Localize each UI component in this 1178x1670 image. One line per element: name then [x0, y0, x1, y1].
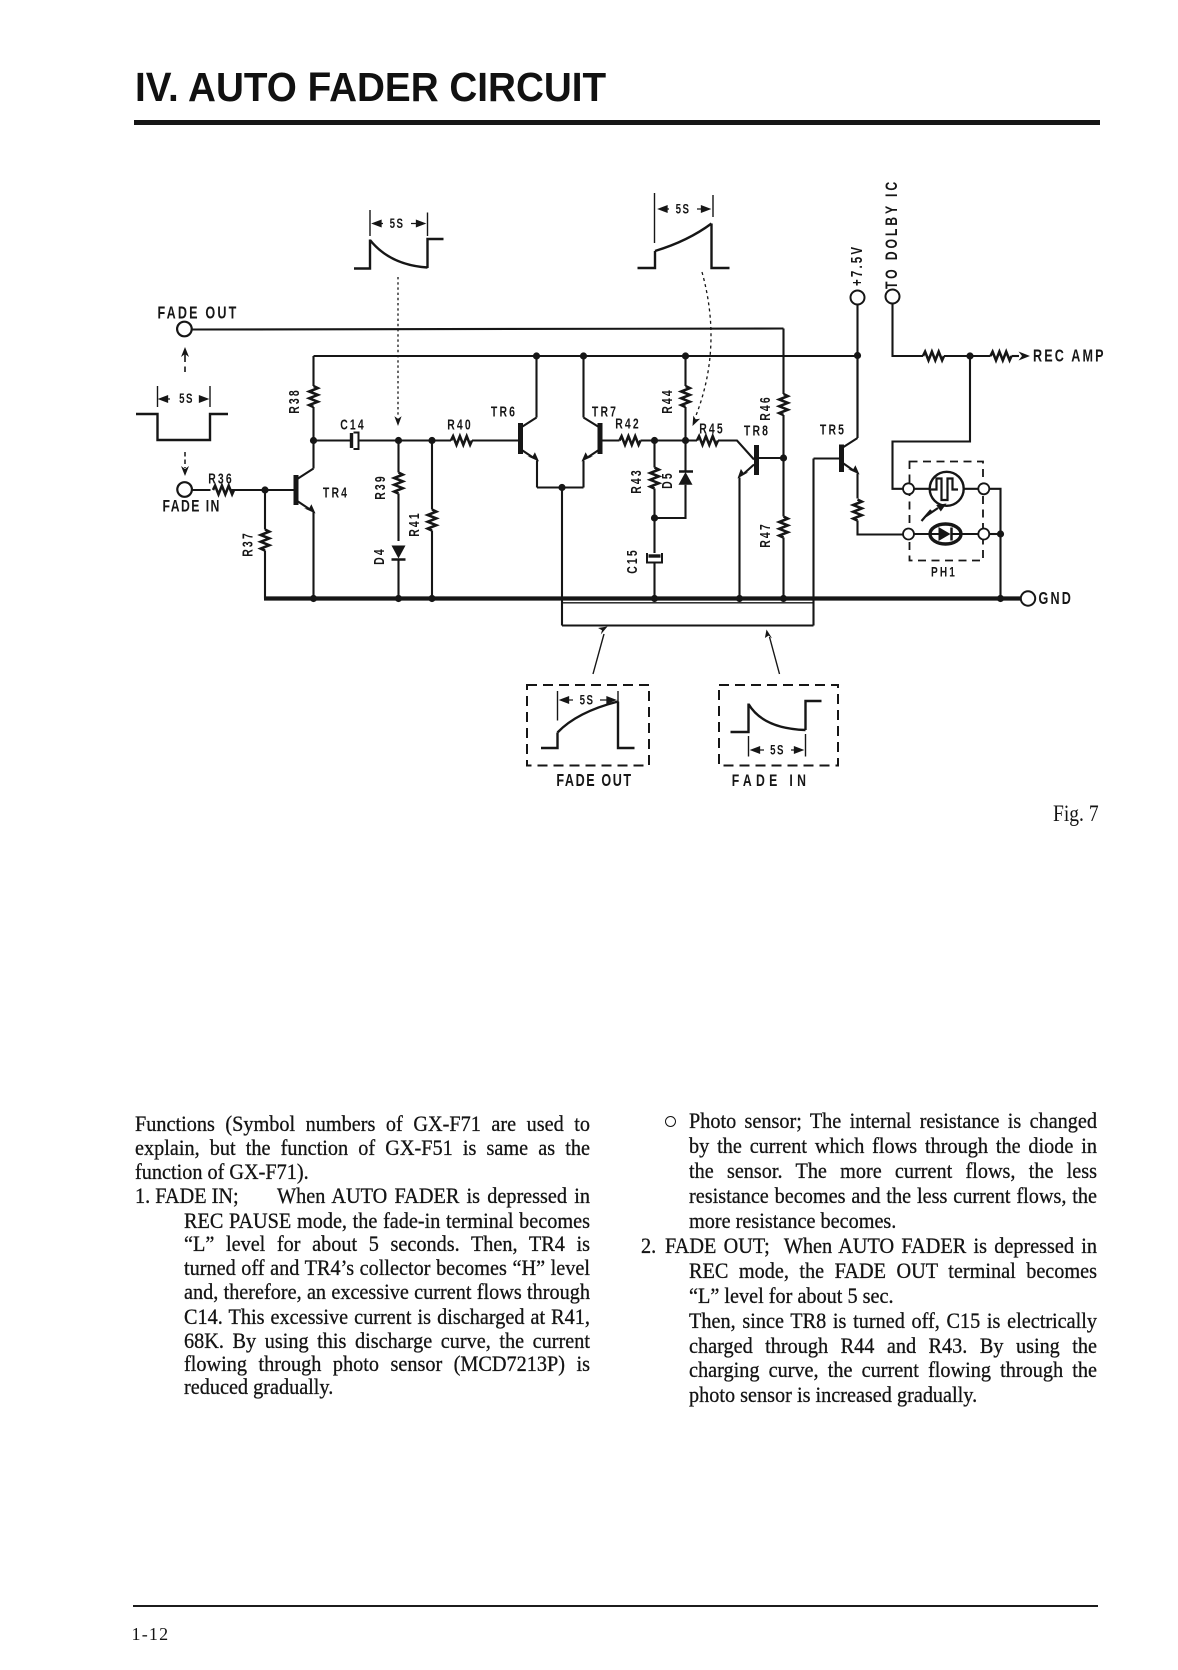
- capacitor C14: [352, 433, 359, 450]
- node: R41 on bus: [428, 595, 435, 602]
- node: TR8 emitter on bus: [736, 595, 743, 602]
- diode D4: [392, 546, 406, 599]
- light coupling arrow inside PH1: [922, 504, 947, 522]
- svg-text:D5: D5: [659, 471, 675, 489]
- terminal GND: [1021, 591, 1035, 605]
- terminal +7.5V: [851, 291, 865, 305]
- wire: R45 to TR8 base: [718, 441, 754, 460]
- resistor R37: [264, 490, 266, 599]
- svg-text:TR6: TR6: [491, 404, 517, 420]
- wire: TR7 base to R42: [603, 439, 620, 441]
- wire: FADE OUT drop / R46 top: [782, 329, 784, 395]
- node: photo coupler on bus: [997, 595, 1004, 602]
- svg-text:5S: 5S: [676, 202, 691, 217]
- svg-text:TR7: TR7: [592, 404, 618, 420]
- photo coupler terminal (upper left): [903, 483, 914, 494]
- node: D4 on bus: [395, 595, 402, 602]
- FADE IN waveform box (dashed): [719, 685, 838, 766]
- transistor TR4: [296, 441, 316, 599]
- svg-text:5S: 5S: [770, 743, 785, 758]
- wire: R36 to TR4 base: [232, 489, 294, 491]
- svg-text:C14: C14: [340, 417, 366, 433]
- wire: LED right to GND drop: [989, 533, 1000, 535]
- wire: below-bus thin parallel line: [562, 602, 813, 604]
- transistor TR5: [814, 356, 860, 499]
- resistor R42: [620, 436, 641, 445]
- ground bus: [264, 596, 1021, 600]
- transistor TR8: [738, 445, 784, 599]
- wire: R42 to R45 node: [641, 439, 698, 441]
- wire: FADE OUT line: [191, 329, 784, 330]
- wire: FADE IN to R36: [191, 489, 211, 491]
- node: TR7 collector on rail: [580, 352, 587, 359]
- wire: photoresistor right to GND drop: [989, 489, 1000, 599]
- node: +7.5V rail junction: [854, 352, 861, 359]
- waveform: fade-out ramp (top right): [638, 193, 730, 268]
- annotation arrow from fade-in pulse down to C14 node: [394, 277, 401, 426]
- svg-text:R37: R37: [240, 531, 256, 557]
- transistor TR6: [521, 356, 540, 488]
- wire: TR6/TR7 emitters join: [537, 486, 584, 488]
- svg-text:FADE OUT: FADE OUT: [158, 304, 239, 324]
- svg-text:R46: R46: [757, 395, 773, 421]
- diode D5: [655, 441, 694, 519]
- node: R44/D5/R45 junction: [682, 437, 689, 444]
- resistor R44: [684, 356, 686, 441]
- resistor R45: [697, 436, 718, 445]
- wire: TO DOLBY IC drop: [893, 304, 924, 357]
- wire: +7.5V rail: [314, 355, 858, 357]
- FADE OUT waveform box (dashed): [527, 685, 649, 766]
- resistor R41: [431, 441, 433, 599]
- node: TR4 collector / R38 / C14: [310, 437, 317, 444]
- arrow up (FADE OUT annotation): [181, 347, 189, 372]
- node: R47 on bus: [780, 595, 787, 602]
- node: REC AMP junction: [966, 352, 973, 359]
- svg-text:TR4: TR4: [323, 485, 349, 501]
- terminal FADE IN: [177, 482, 192, 497]
- transistor TR7: [582, 356, 601, 488]
- resistor R38: [312, 356, 314, 441]
- resistor R46: [779, 394, 788, 415]
- wire: R47 to ground bus: [782, 538, 784, 599]
- wire: node to C14: [314, 439, 351, 441]
- terminal FADE OUT: [177, 322, 192, 337]
- svg-text:R38: R38: [286, 388, 302, 414]
- wire: photo sensor feed from REC AMP junction: [893, 356, 971, 489]
- annotation arrow from fade-out ramp down to R45 node: [693, 272, 712, 426]
- waveform: 5S low pulse (left margin): [136, 386, 228, 440]
- svg-text:TO DOLBY IC: TO DOLBY IC: [883, 179, 901, 289]
- svg-text:R36: R36: [208, 471, 234, 487]
- wire: to REC AMP junction: [944, 355, 991, 357]
- svg-text:REC AMP: REC AMP: [1033, 347, 1106, 367]
- svg-text:PH1: PH1: [931, 564, 957, 580]
- photo coupler terminal (upper right): [978, 483, 989, 494]
- arrow down (FADE IN annotation): [181, 452, 189, 476]
- LED element of PH1: [914, 524, 978, 544]
- wire: +7.5V drop to rail and TR5 collector: [856, 305, 858, 439]
- svg-text:R43: R43: [628, 468, 644, 494]
- svg-text:TR5: TR5: [820, 422, 846, 438]
- resistor TR5 emitter (unlabeled): [853, 500, 862, 521]
- node: C14/R39 junction: [395, 437, 402, 444]
- node: R44 on rail: [682, 352, 689, 359]
- node: R43 top junction: [651, 437, 658, 444]
- arrow to REC AMP: [1012, 352, 1031, 361]
- svg-text:FADE OUT: FADE OUT: [556, 771, 632, 791]
- svg-text:R41: R41: [406, 511, 422, 537]
- node: TR4 emitter on bus: [310, 595, 317, 602]
- node: C15 on bus: [651, 595, 658, 602]
- waveform: fade-in pulse (top middle): [354, 210, 444, 269]
- svg-text:+7.5V: +7.5V: [847, 245, 865, 286]
- svg-text:C15: C15: [624, 548, 640, 574]
- resistor R36: [213, 486, 234, 495]
- photo coupler terminal (lower right): [978, 529, 989, 540]
- svg-text:D4: D4: [371, 547, 387, 565]
- annotation arrow from FADE IN box to node line: [765, 630, 780, 675]
- photo coupler PH1 dashed box: [910, 462, 984, 561]
- wire: TR5 emitter to LED: [858, 521, 903, 535]
- wire: emitters junction down below bus: [561, 488, 563, 626]
- wire: R46 to TR8 collector node: [782, 415, 784, 517]
- node: R43/D5/C15 junction: [651, 514, 658, 521]
- node: TR6 collector on rail: [533, 352, 540, 359]
- node: emitters junction: [558, 484, 565, 491]
- svg-text:TR8: TR8: [744, 423, 770, 439]
- svg-text:R45: R45: [699, 421, 725, 437]
- svg-text:Fig. 7: Fig. 7: [1053, 801, 1099, 827]
- photo coupler terminal (lower left): [903, 529, 914, 540]
- wire: TR5 base loop below ground bus: [812, 459, 814, 626]
- node: R41 junction: [428, 437, 435, 444]
- wire: R40 to TR6 base: [472, 439, 518, 441]
- svg-text:5S: 5S: [179, 392, 194, 407]
- resistor R40: [451, 436, 472, 445]
- node: junction R36/R37/TR4: [261, 486, 268, 493]
- resistor R43: [653, 441, 655, 519]
- resistor R47: [779, 517, 788, 538]
- wire: C14 to R40: [359, 439, 452, 441]
- wire: below-bus bottom link: [562, 624, 814, 626]
- svg-text:R39: R39: [372, 474, 388, 500]
- terminal TO DOLBY IC: [886, 290, 900, 304]
- node: LED/photoresistor common: [997, 530, 1004, 537]
- resistor R39: [397, 441, 399, 542]
- resistor (REC AMP line, right, unlabeled): [991, 352, 1012, 361]
- svg-text:GND: GND: [1039, 589, 1073, 609]
- svg-text:5S: 5S: [390, 217, 405, 232]
- svg-text:R44: R44: [659, 388, 675, 414]
- node: TR8 collector junction: [780, 454, 787, 461]
- capacitor C15: [647, 518, 662, 599]
- svg-text:FADE IN: FADE IN: [732, 772, 810, 790]
- annotation arrow from FADE OUT box to node line: [593, 627, 608, 675]
- svg-text:R47: R47: [757, 522, 773, 548]
- svg-text:FADE IN: FADE IN: [163, 498, 221, 516]
- svg-text:R42: R42: [615, 416, 641, 432]
- svg-text:5S: 5S: [580, 693, 595, 708]
- resistor (REC AMP line, left, unlabeled): [923, 352, 944, 361]
- photoresistor element of PH1: [914, 472, 978, 506]
- waveform: fade-out charge curve: [541, 691, 635, 748]
- waveform: fade-in discharge curve: [731, 701, 822, 757]
- svg-text:R40: R40: [447, 417, 473, 433]
